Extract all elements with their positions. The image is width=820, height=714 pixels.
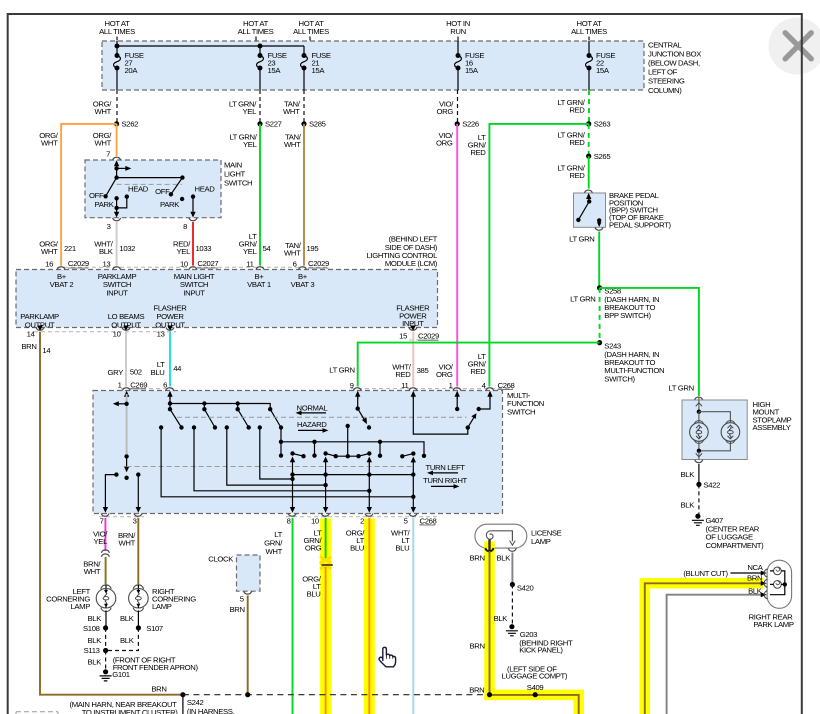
- MF link dots: [290, 477, 294, 481]
- wire LT GRN S258 to high mount stoplamp: [600, 288, 699, 396]
- svg-text:WHT: WHT: [95, 139, 112, 148]
- MF pin 4: [482, 381, 515, 399]
- svg-text:WHT: WHT: [41, 139, 58, 148]
- wire BLK S108 to S113 (dashed): [105, 628, 107, 651]
- HOT AT ALL TIMES label (fuse 23): [238, 19, 274, 41]
- svg-text:S227: S227: [265, 120, 282, 129]
- fuse 27 20A: [114, 51, 144, 75]
- central junction box: [102, 41, 644, 90]
- MF mech dash upper-left: [127, 466, 413, 468]
- svg-text:7: 7: [106, 150, 110, 159]
- HOT AT ALL TIMES label (fuse 21): [293, 19, 329, 41]
- svg-text:20A: 20A: [125, 66, 139, 75]
- MLS wafer2 blade to OFF: [171, 178, 183, 195]
- node S285: [301, 121, 306, 126]
- svg-text:C2029: C2029: [418, 332, 439, 341]
- MF pin 3 out: [133, 507, 142, 526]
- svg-text:ORG: ORG: [436, 139, 453, 148]
- MLS wafer1 PARK contact: [114, 196, 118, 200]
- svg-text:221: 221: [64, 244, 76, 253]
- svg-text:BLK: BLK: [88, 614, 103, 623]
- wire LT GRN/ORG MF pin10 (highlighted): [303, 518, 325, 559]
- fuse 23 15A: [257, 51, 287, 75]
- wire fuse23 to S227 (dashed): [259, 90, 261, 124]
- svg-text:LAMP: LAMP: [70, 602, 90, 611]
- multi-function switch box: [93, 391, 503, 514]
- svg-text:BRN: BRN: [21, 342, 36, 351]
- svg-text:MAIN: MAIN: [224, 161, 242, 170]
- MF pin9 blade: [357, 394, 359, 409]
- svg-text:S107: S107: [146, 624, 163, 633]
- wire LT GRN/RED S265 to BPP switch: [557, 156, 588, 188]
- node license junction: [487, 692, 492, 697]
- splice X marker: [320, 557, 332, 563]
- MLS pin 7: [106, 150, 121, 171]
- highlight band pin2 wire: [364, 519, 375, 714]
- MF rail y441.8: [281, 428, 424, 456]
- MF bridge pivots row2: [290, 451, 294, 455]
- wire BRN right rear park lamp run: [645, 573, 767, 714]
- svg-text:RED: RED: [569, 106, 585, 115]
- svg-text:LT GRN: LT GRN: [569, 235, 594, 244]
- svg-text:9: 9: [350, 381, 354, 390]
- clock box: [208, 555, 260, 604]
- LCM pin 15 out: [399, 326, 439, 341]
- MLS mech dashes: [117, 183, 182, 185]
- svg-text:1032: 1032: [119, 244, 135, 253]
- svg-text:LUGGAGE COMPT): LUGGAGE COMPT): [502, 672, 568, 681]
- node S422: [696, 482, 701, 487]
- MF rail y474.6: [293, 474, 414, 476]
- mouse hand cursor: [379, 647, 396, 667]
- wire ORG/WHT S262 to MLS pin7: [93, 124, 117, 156]
- wire fuse21 to S285 (dashed): [303, 90, 305, 124]
- svg-text:(IN HARNESS,: (IN HARNESS,: [187, 707, 235, 714]
- svg-text:16: 16: [45, 259, 53, 268]
- wire BLK right rear park lamp run: [667, 586, 767, 714]
- svg-text:OFF: OFF: [155, 187, 170, 196]
- wire fuse16 to S226 (dashed): [457, 90, 459, 124]
- wire BLK S113 to G101 (dashed): [105, 651, 107, 671]
- svg-text:10: 10: [311, 517, 319, 526]
- svg-text:S285: S285: [309, 120, 326, 129]
- wire RED/YEL MLS pin8 to LCM pin10: [173, 222, 211, 266]
- wire BLK HMSL to S422: [698, 464, 700, 485]
- svg-text:(BLUNT CUT): (BLUNT CUT): [683, 569, 728, 578]
- svg-text:WHT: WHT: [95, 107, 112, 116]
- MLS pin 8: [183, 197, 197, 231]
- node S420: [510, 582, 515, 587]
- MF connector dash top: [121, 388, 513, 390]
- svg-text:BLU: BLU: [307, 589, 321, 598]
- brake pedal position switch: [574, 190, 672, 230]
- LCM pin 10: [189, 267, 197, 270]
- MF pin 2 out: [360, 507, 373, 526]
- svg-text:BPP SWITCH): BPP SWITCH): [604, 311, 651, 320]
- wire LT GRN/RED S258 to S243 (green dashed): [599, 288, 601, 343]
- MLS wafer1 links to pin3: [117, 197, 127, 208]
- TURN LEFT label: [426, 463, 466, 475]
- svg-text:S226: S226: [462, 120, 479, 129]
- svg-text:(BELOW DASH,: (BELOW DASH,: [648, 59, 700, 68]
- wire LT GRN/RED S263 to MF pin4: [468, 124, 589, 387]
- svg-text:HEAD: HEAD: [195, 185, 216, 194]
- svg-text:WHT: WHT: [266, 547, 283, 556]
- LCM pin 10 out: [113, 326, 130, 339]
- LCM pin 6: [299, 267, 307, 270]
- ground G101: [100, 669, 130, 681]
- MF hazard blade: [468, 417, 475, 428]
- svg-text:PEDAL SUPPORT): PEDAL SUPPORT): [609, 221, 672, 230]
- main light switch box: [85, 160, 221, 218]
- svg-text:C2029: C2029: [68, 259, 89, 268]
- wire BLK S107 to S113 (dashed): [108, 628, 138, 651]
- svg-text:5: 5: [404, 517, 408, 526]
- svg-text:15A: 15A: [596, 66, 610, 75]
- wire fuse22 to S263 (green dashed): [557, 90, 589, 124]
- svg-text:BLK: BLK: [88, 658, 103, 667]
- svg-text:CLOCK: CLOCK: [208, 555, 234, 564]
- svg-text:54: 54: [263, 244, 272, 253]
- svg-text:RED: RED: [569, 138, 585, 147]
- LCM pin 14 out: [27, 326, 44, 339]
- svg-text:WHT: WHT: [41, 247, 58, 256]
- MLS wafer1 common: [116, 166, 118, 178]
- svg-text:MODULE (LCM): MODULE (LCM): [385, 259, 438, 268]
- inline connector on pin7 wire: [101, 550, 109, 557]
- LCM pin 13: [113, 267, 121, 270]
- svg-text:BRN: BRN: [151, 685, 166, 694]
- MF blades row1: [170, 409, 281, 427]
- LCM pin 16: [57, 267, 65, 270]
- node clock junction: [245, 692, 250, 697]
- LCM connector dash line top: [57, 266, 330, 268]
- svg-text:LEFT OF: LEFT OF: [648, 68, 678, 77]
- svg-text:13: 13: [102, 259, 110, 268]
- MF connector dash bottom: [99, 517, 437, 525]
- svg-text:15A: 15A: [312, 66, 326, 75]
- svg-text:2: 2: [360, 517, 364, 526]
- wire fuse27 feed: [116, 41, 118, 90]
- MF hanging contact x347.7: [346, 424, 350, 428]
- MLS wafer1 HEAD contact: [125, 194, 129, 198]
- svg-text:44: 44: [173, 364, 182, 373]
- right rear park lamp: [749, 560, 794, 629]
- LCM connector dash line bottom: [34, 331, 176, 333]
- MF pin 9: [350, 381, 362, 399]
- wire ORG/LT BLU MF pin2 (highlighted): [346, 518, 370, 714]
- svg-text:GRY: GRY: [108, 368, 124, 377]
- fuse 21 15A: [301, 51, 331, 75]
- wire ORG/LT BLU below X (highlighted): [302, 567, 325, 714]
- wire BRN/WHT MF pin3 to right cornering lamp: [118, 518, 138, 584]
- MF mech dash row1: [177, 416, 467, 418]
- MLS arrow right: [117, 167, 128, 169]
- MF pin11 internal path: [413, 394, 468, 434]
- fuse 22 15A: [586, 51, 616, 75]
- svg-text:WHT: WHT: [283, 107, 300, 116]
- svg-text:14: 14: [42, 346, 51, 355]
- svg-text:RUN: RUN: [450, 27, 466, 36]
- MF left arrow at pin1: [117, 403, 127, 405]
- MF wiper from gray feed: [124, 454, 128, 458]
- svg-text:RED: RED: [395, 370, 411, 379]
- left cornering lamp: [46, 585, 116, 612]
- MF internal rail from pin6: [170, 394, 270, 409]
- svg-text:BLU: BLU: [350, 544, 364, 553]
- fuse 16 15A: [455, 51, 485, 75]
- MF pin 1 (C268): [449, 381, 461, 399]
- HOT AT ALL TIMES label (fuse 27): [99, 19, 135, 41]
- blunt cut NCA wire: [683, 563, 766, 578]
- svg-text:FRONT FENDER APRON): FRONT FENDER APRON): [113, 663, 199, 672]
- svg-text:RED: RED: [470, 148, 486, 157]
- svg-text:BLU: BLU: [151, 368, 165, 377]
- MF contact to pin7: [114, 472, 118, 476]
- MF pin1b stub: [456, 394, 458, 409]
- svg-text:WHT: WHT: [284, 140, 301, 149]
- svg-text:ALL TIMES: ALL TIMES: [571, 27, 607, 36]
- MF pin 6: [163, 380, 174, 399]
- svg-text:BLK: BLK: [748, 586, 763, 595]
- LCM pin 13 out: [157, 326, 174, 339]
- node S265: [586, 154, 591, 159]
- svg-text:3: 3: [133, 517, 137, 526]
- svg-text:S265: S265: [594, 152, 611, 161]
- wire fuse22 feed: [588, 41, 590, 90]
- svg-text:ALL TIMES: ALL TIMES: [293, 27, 329, 36]
- right lamp BLK down: [137, 611, 139, 628]
- MF nested link wires: [161, 428, 413, 497]
- svg-text:INPUT: INPUT: [183, 289, 205, 298]
- svg-text:C2027: C2027: [197, 259, 218, 268]
- NORMAL label: [296, 403, 329, 415]
- node S409: [533, 692, 538, 697]
- svg-text:LT GRN: LT GRN: [329, 365, 354, 374]
- svg-text:PARK: PARK: [160, 200, 180, 209]
- license lamp: [475, 524, 562, 551]
- connector label underlines: [68, 268, 513, 525]
- svg-text:6: 6: [293, 259, 297, 268]
- node S108: [103, 625, 108, 630]
- svg-text:8: 8: [287, 517, 291, 526]
- svg-text:YEL: YEL: [243, 247, 258, 256]
- MF bridge tips row2: [293, 454, 304, 457]
- MF contact columns row1: [159, 425, 163, 429]
- svg-text:11: 11: [401, 381, 408, 390]
- HAZARD label: [297, 420, 329, 433]
- svg-text:S108: S108: [83, 624, 100, 633]
- high mount stoplamp assembly: [682, 397, 792, 463]
- svg-text:S422: S422: [704, 480, 721, 489]
- svg-text:VBAT 2: VBAT 2: [50, 280, 74, 289]
- svg-text:LT GRN: LT GRN: [668, 383, 693, 392]
- svg-text:VBAT 1: VBAT 1: [247, 280, 271, 289]
- svg-text:S262: S262: [122, 120, 139, 129]
- MLS wafer link: [114, 175, 118, 179]
- svg-text:BLK: BLK: [494, 614, 509, 623]
- svg-text:C269: C269: [130, 380, 147, 389]
- wire WHT/RED LCM pin15 to MF pin11: [392, 332, 428, 387]
- svg-text:14: 14: [27, 330, 36, 339]
- node S263: [586, 121, 591, 126]
- svg-text:BLK: BLK: [681, 501, 696, 510]
- highlight band park lamp BRN run: [645, 583, 763, 714]
- svg-text:6: 6: [163, 380, 167, 389]
- svg-text:SWITCH: SWITCH: [507, 407, 535, 416]
- svg-text:HAZARD: HAZARD: [297, 420, 327, 429]
- svg-text:7: 7: [100, 517, 104, 526]
- node S243: [597, 340, 602, 345]
- wire TAN/WHT S285 to LCM pin6: [284, 124, 318, 266]
- wire BRN license lamp to S409 run: [469, 540, 578, 714]
- wire WHT/LT BLU MF pin5 down: [391, 518, 413, 714]
- svg-text:10: 10: [180, 259, 188, 268]
- ground G407: [692, 514, 723, 526]
- svg-text:3: 3: [107, 222, 111, 231]
- svg-text:15A: 15A: [268, 66, 282, 75]
- svg-text:S263: S263: [594, 120, 611, 129]
- svg-text:YEL: YEL: [177, 247, 192, 256]
- svg-text:OFF: OFF: [89, 191, 104, 200]
- svg-text:1033: 1033: [196, 244, 212, 253]
- wire BLK license lamp to S420: [511, 553, 513, 585]
- wire LT GRN S243 to MF pin9: [329, 343, 599, 387]
- svg-text:10: 10: [113, 330, 121, 339]
- close button: [769, 18, 820, 75]
- svg-text:SWITCH: SWITCH: [224, 179, 252, 188]
- svg-text:11: 11: [246, 259, 253, 268]
- wire LT BLU LCM pin13 to MF pin6: [151, 332, 183, 387]
- svg-text:RED: RED: [569, 171, 585, 180]
- svg-text:RED: RED: [470, 367, 486, 376]
- MLS pin 3: [107, 208, 121, 231]
- svg-text:ORG: ORG: [436, 370, 453, 379]
- svg-text:INPUT: INPUT: [106, 289, 128, 298]
- svg-text:CENTRAL: CENTRAL: [648, 40, 683, 49]
- wire LT GRN/RED S263 to S265 (green dashed): [557, 124, 588, 156]
- svg-text:LT GRN: LT GRN: [570, 294, 595, 303]
- svg-text:YEL: YEL: [243, 140, 258, 149]
- svg-text:KICK PANEL): KICK PANEL): [519, 646, 563, 655]
- MF pin 1 (C269): [118, 380, 148, 399]
- svg-text:BLK: BLK: [497, 554, 512, 563]
- svg-text:WHT: WHT: [284, 249, 301, 258]
- svg-text:8: 8: [183, 222, 187, 231]
- svg-text:TURN RIGHT: TURN RIGHT: [423, 476, 468, 485]
- wire LT GRN/WHT MF pin8 down: [264, 518, 292, 714]
- svg-text:ORG: ORG: [437, 107, 454, 116]
- highlight band license BRN run: [490, 542, 579, 714]
- wire BLK S422 to G407 (dashed): [698, 484, 700, 514]
- svg-text:C268: C268: [420, 517, 437, 526]
- wire VIO/YEL MF pin7: [93, 518, 108, 551]
- ground G203: [506, 624, 537, 639]
- node S262: [114, 121, 119, 126]
- svg-text:1: 1: [449, 381, 453, 390]
- MF pin 7 out: [100, 507, 110, 526]
- wire fuse27 to S262 (dashed): [116, 90, 118, 124]
- svg-text:13: 13: [157, 330, 165, 339]
- svg-text:LAMP: LAMP: [152, 602, 172, 611]
- svg-text:BLU: BLU: [395, 544, 409, 553]
- highlight band pin10 wire: [320, 519, 331, 714]
- svg-text:YEL: YEL: [243, 107, 258, 116]
- node S227: [257, 121, 262, 126]
- MLS wafer2 PARK contact: [180, 197, 184, 201]
- wire VIO/ORG S226 to MF pin1: [436, 124, 457, 387]
- svg-text:WHT: WHT: [119, 538, 136, 547]
- MF internal gray feed from pin1: [126, 394, 128, 456]
- svg-text:BLK: BLK: [120, 614, 135, 623]
- cut-off dashed box bottom-left: [16, 712, 58, 714]
- svg-text:BRN: BRN: [470, 642, 485, 651]
- wire BRN/WHT to left cornering lamp: [83, 557, 105, 584]
- svg-text:COLUMN): COLUMN): [648, 86, 682, 95]
- MLS wafer1 blade to OFF: [106, 178, 117, 197]
- wire BRN clock to S242 run: [230, 596, 248, 696]
- svg-text:WHT: WHT: [84, 567, 101, 576]
- bus wire inside CJB: [117, 45, 304, 47]
- svg-text:ORG: ORG: [305, 544, 322, 553]
- HOT AT ALL TIMES label (fuse 22): [571, 19, 607, 41]
- MF wiper up-arrows: [290, 457, 295, 463]
- svg-text:VBAT 3: VBAT 3: [291, 280, 315, 289]
- wire fuse21 feed: [303, 46, 305, 90]
- right cornering lamp: [129, 585, 197, 612]
- LCM pin 11: [256, 267, 264, 270]
- svg-text:ALL TIMES: ALL TIMES: [238, 27, 274, 36]
- svg-text:COMPARTMENT): COMPARTMENT): [706, 541, 765, 550]
- svg-text:BRN: BRN: [470, 554, 485, 563]
- svg-text:BRN: BRN: [230, 605, 245, 614]
- svg-text:385: 385: [417, 366, 429, 375]
- TURN RIGHT label: [423, 476, 468, 489]
- svg-text:S420: S420: [517, 584, 534, 593]
- svg-text:LIGHT: LIGHT: [224, 170, 246, 179]
- svg-text:BRN: BRN: [747, 573, 762, 582]
- MF pin 10 out: [311, 507, 329, 526]
- wire GRY LCM pin10 to MF pin1: [108, 332, 142, 387]
- node S113: [103, 648, 108, 653]
- MF contact to pin3: [136, 472, 140, 476]
- svg-text:502: 502: [130, 368, 142, 377]
- MF pivot dots row: [170, 404, 238, 410]
- MF pin 5 out: [404, 507, 437, 526]
- left lamp BLK down: [105, 611, 107, 628]
- wire fuse16 feed: [457, 41, 459, 90]
- svg-text:LAMP: LAMP: [531, 537, 551, 546]
- svg-text:HEAD: HEAD: [128, 185, 149, 194]
- node S226: [455, 121, 460, 126]
- wire LT GRN BPP to S258: [569, 232, 599, 288]
- svg-text:C2029: C2029: [308, 259, 329, 268]
- svg-text:C268: C268: [498, 381, 515, 390]
- node BRN/S242 junction: [180, 692, 185, 697]
- MF pin 11: [401, 381, 417, 399]
- svg-text:PARK LAMP: PARK LAMP: [753, 620, 794, 629]
- svg-text:YEL: YEL: [94, 537, 109, 546]
- harness dashed line S242: [183, 694, 490, 696]
- node S258: [597, 285, 602, 290]
- svg-text:ASSEMBLY: ASSEMBLY: [753, 423, 791, 432]
- svg-text:S113: S113: [84, 646, 100, 655]
- svg-text:SWITCH): SWITCH): [604, 374, 635, 383]
- svg-text:BLK: BLK: [120, 636, 135, 645]
- svg-text:ALL TIMES: ALL TIMES: [99, 27, 135, 36]
- wire LT GRN/YEL S227 to LCM pin11: [229, 124, 271, 266]
- wire ORG/WHT S262 to LCM pin16: [39, 124, 116, 266]
